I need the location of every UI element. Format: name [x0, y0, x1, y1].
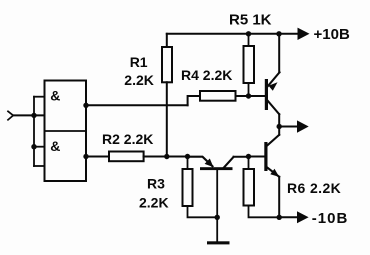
- resistor R6: [244, 169, 255, 206]
- wire branch to gate2 pin1: [34, 146, 45, 148]
- junction dot input: [31, 113, 36, 118]
- svg-text:R2 2.2K: R2 2.2K: [102, 131, 153, 147]
- transistor Q3 emitter diagonal: [188, 157, 213, 167]
- wire input branch column: [33, 97, 35, 166]
- wire input to gate: [13, 114, 44, 116]
- wire top rail: [167, 33, 298, 35]
- transistor Q2 emitter arrowhead: [270, 169, 279, 177]
- resistor R5: [244, 46, 255, 83]
- wire Q2 base: [249, 156, 265, 158]
- wire branch to gate2 pin2: [34, 165, 45, 167]
- input arrow: [8, 111, 13, 120]
- wire R4 to node: [236, 95, 249, 97]
- node R1/R2 junction dot: [164, 154, 169, 159]
- transistor Q2 emitter diagonal: [267, 167, 279, 177]
- svg-text:R3: R3: [147, 176, 165, 192]
- svg-text:R6 2.2K: R6 2.2K: [287, 180, 341, 196]
- node gate1 output dot: [83, 103, 88, 108]
- node -10V rail dot: [277, 215, 282, 220]
- resistor R4: [200, 91, 236, 101]
- wire R3 top: [187, 157, 189, 170]
- svg-text:R4 2.2K: R4 2.2K: [181, 67, 232, 83]
- resistor R3: [183, 169, 193, 206]
- arrow -10V: [297, 211, 309, 223]
- svg-text:-10В: -10В: [312, 210, 349, 227]
- wire R5 top: [248, 34, 250, 46]
- AND gate divider: [45, 130, 87, 132]
- node top rail R5 dot: [246, 31, 251, 36]
- transistor Q3 base bar: [200, 167, 233, 170]
- transistor Q1 emitter arrowhead: [269, 82, 278, 91]
- svg-text:+10В: +10В: [314, 26, 350, 43]
- node R4/R5 junction dot: [246, 93, 251, 98]
- svg-text:2.2K: 2.2K: [139, 195, 169, 211]
- wire R5 bottom: [248, 83, 250, 96]
- wire R3 bottom to ground node: [188, 206, 218, 217]
- transistor Q3 emitter arrowhead: [205, 159, 214, 168]
- wire R6 top: [248, 157, 250, 170]
- node output dot: [277, 124, 282, 129]
- svg-text:R1: R1: [130, 54, 148, 70]
- wire R2 left: [86, 156, 109, 158]
- svg-text:R5 1K: R5 1K: [229, 12, 272, 29]
- wire Q1 collector down: [278, 114, 280, 126]
- wire -10V rail: [279, 216, 297, 218]
- arrow +10V: [298, 28, 310, 40]
- node gate2 output dot: [83, 154, 88, 159]
- transistor Q1 collector diagonal: [268, 101, 280, 115]
- svg-text:&: &: [50, 87, 60, 103]
- AND gate package box: [45, 81, 87, 182]
- transistor Q1 emitter diagonal: [268, 72, 280, 86]
- wire R2 to Q3: [144, 156, 188, 158]
- wire Q2 collector up: [278, 127, 280, 135]
- transistor Q2 collector diagonal: [267, 135, 279, 146]
- wire gate1 output: [86, 104, 188, 106]
- wire R1 down to R2 node: [166, 82, 168, 156]
- node R3 junction dot: [185, 154, 190, 159]
- resistor R1: [162, 47, 172, 82]
- wire Q1 emitter to rail: [278, 34, 280, 73]
- wire output node: [279, 126, 297, 128]
- wire node to Q1 base: [249, 95, 266, 97]
- wire branch to gate1 pin1: [34, 96, 45, 98]
- wire jog up to R4: [188, 96, 200, 105]
- wire R6 bottom to -10V rail: [249, 206, 280, 218]
- transistor Q3 collector diagonal: [224, 157, 234, 168]
- node R6 junction dot: [246, 154, 251, 159]
- wire Q3 collector to R6 node: [234, 156, 249, 158]
- node top rail Q1 dot: [276, 31, 281, 36]
- svg-text:&: &: [50, 138, 60, 154]
- svg-text:2.2K: 2.2K: [124, 72, 154, 88]
- wire top rail corner to R1: [166, 34, 168, 47]
- node ground junction dot: [215, 215, 220, 220]
- arrow output: [297, 120, 309, 132]
- ground: [207, 241, 230, 244]
- transistor Q1 base bar: [265, 79, 268, 110]
- transistor Q2 base bar: [264, 142, 267, 171]
- wire Q2 emitter down: [278, 177, 280, 218]
- wire Q3 base down: [216, 170, 218, 242]
- junction dot branch: [31, 144, 36, 149]
- resistor R2: [109, 152, 144, 162]
